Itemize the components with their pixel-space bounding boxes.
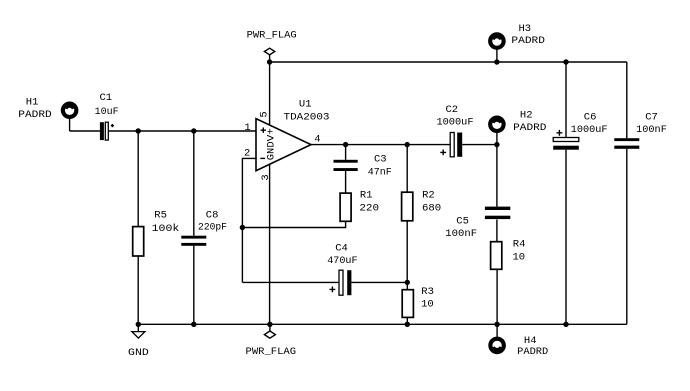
junction GND rail at C6 bbox=[563, 322, 568, 327]
wire C3 to R1 bbox=[345, 171, 347, 193]
pad H3 bbox=[490, 34, 504, 48]
svg-text:100nF: 100nF bbox=[445, 228, 477, 240]
junction GND rail at pin3/PWR_FLAG bbox=[267, 322, 272, 327]
svg-text:PADRD: PADRD bbox=[18, 109, 52, 121]
svg-text:C3: C3 bbox=[374, 154, 387, 166]
junction feedback net at R1 row bbox=[240, 225, 245, 230]
junction GND rail at R5 bbox=[136, 322, 141, 327]
junction output net at C3 bbox=[343, 142, 348, 147]
svg-text:100k: 100k bbox=[152, 223, 180, 235]
svg-text:C4: C4 bbox=[335, 243, 348, 255]
wire C5 to R4 bbox=[496, 220, 498, 242]
svg-text:V+: V+ bbox=[266, 128, 278, 141]
svg-text:PADRD: PADRD bbox=[513, 122, 546, 134]
capacitor C2 bbox=[440, 133, 462, 157]
svg-text:470uF: 470uF bbox=[327, 255, 357, 267]
junction C4/R2/R3 node bbox=[405, 280, 410, 285]
resistor R1 bbox=[340, 193, 351, 221]
wire R2 lead bottom bbox=[406, 221, 408, 283]
junction V+ rail at C6 bbox=[563, 59, 568, 64]
capacitor C7 bbox=[614, 138, 639, 149]
resistor R4 bbox=[491, 242, 502, 270]
svg-text:C5: C5 bbox=[456, 215, 469, 227]
svg-text:100nF: 100nF bbox=[636, 124, 667, 136]
wire H1 stem bbox=[69, 118, 71, 131]
svg-text:R2: R2 bbox=[422, 190, 435, 202]
resistor R5 bbox=[133, 227, 144, 256]
junction input net at C8 bbox=[191, 128, 196, 133]
junction V+ rail at PWR_FLAG bbox=[267, 59, 272, 64]
svg-text:10uF: 10uF bbox=[95, 106, 119, 118]
wire pwr flag bottom stem bbox=[269, 324, 271, 331]
wire R2 lead top bbox=[406, 145, 408, 193]
svg-text:10: 10 bbox=[512, 252, 525, 264]
wire R1 row bbox=[242, 221, 345, 227]
svg-text:PADRD: PADRD bbox=[517, 346, 548, 358]
svg-text:3: 3 bbox=[260, 174, 272, 180]
wire H4 stem bbox=[496, 324, 498, 338]
wire signal right bbox=[108, 130, 256, 132]
capacitor C5 bbox=[485, 207, 510, 219]
resistor R3 bbox=[402, 290, 413, 318]
wire R4 lead bottom bbox=[496, 269, 498, 324]
capacitor C6 bbox=[553, 130, 579, 150]
svg-text:U1: U1 bbox=[299, 98, 312, 110]
svg-text:GND: GND bbox=[266, 141, 278, 160]
junction GND rail at H4 bbox=[494, 322, 499, 327]
ground symbol bbox=[132, 332, 145, 339]
wire R5 column bottom bbox=[137, 256, 139, 324]
wire GND stem bbox=[137, 324, 139, 331]
svg-text:H2: H2 bbox=[520, 109, 533, 121]
svg-text:H1: H1 bbox=[26, 97, 39, 109]
svg-text:5: 5 bbox=[259, 111, 271, 117]
svg-text:C2: C2 bbox=[445, 104, 458, 116]
wire C5 lead top bbox=[496, 145, 498, 207]
svg-text:PWR_FLAG: PWR_FLAG bbox=[247, 29, 297, 41]
wire C8 column top bbox=[193, 131, 195, 236]
op-amp U1 TDA2003 body bbox=[256, 119, 311, 171]
svg-text:220: 220 bbox=[359, 202, 379, 214]
wire R3 lead bottom bbox=[406, 317, 408, 324]
svg-text:R5: R5 bbox=[154, 210, 167, 222]
svg-text:C1: C1 bbox=[99, 92, 112, 104]
junction output net at H2 bbox=[494, 142, 499, 147]
junction GND rail at R3 bbox=[405, 322, 410, 327]
wire H3 stem bbox=[496, 49, 498, 63]
svg-text:R1: R1 bbox=[360, 190, 373, 202]
wire bottom rail bbox=[138, 323, 627, 325]
svg-text:C6: C6 bbox=[584, 112, 597, 124]
svg-text:47nF: 47nF bbox=[368, 167, 392, 179]
capacitor C4 bbox=[330, 270, 352, 295]
wire pin5 V+ bbox=[269, 62, 271, 125]
junction V+ rail at H3 bbox=[494, 59, 499, 64]
svg-text:R3: R3 bbox=[421, 286, 434, 298]
junction input net at R5 bbox=[136, 128, 141, 133]
capacitor C1 bbox=[100, 122, 114, 140]
svg-text:C8: C8 bbox=[206, 210, 219, 222]
svg-text:C7: C7 bbox=[645, 112, 658, 124]
resistor R2 bbox=[402, 192, 413, 221]
svg-text:4: 4 bbox=[314, 133, 320, 145]
power flag top diamond bbox=[264, 48, 274, 55]
svg-text:GND: GND bbox=[128, 347, 149, 359]
pad H2 bbox=[490, 118, 504, 132]
wire pin3 GND column bbox=[269, 164, 271, 324]
wire C8 column bottom bbox=[193, 246, 195, 325]
svg-text:H3: H3 bbox=[518, 23, 531, 35]
wire signal left bbox=[70, 130, 100, 132]
wire C6 column top bbox=[565, 62, 567, 138]
wire C7 column top bbox=[626, 62, 628, 138]
capacitor C8 bbox=[181, 236, 206, 246]
wire C6 column bottom bbox=[565, 150, 567, 325]
wire pin2 path bbox=[242, 158, 256, 282]
wire output left bbox=[311, 144, 450, 146]
wire C4 row left bbox=[242, 281, 339, 283]
svg-text:220pF: 220pF bbox=[198, 222, 227, 234]
power flag bottom diamond bbox=[264, 331, 275, 338]
svg-text:1000uF: 1000uF bbox=[571, 124, 608, 136]
wire H2 stem bbox=[496, 132, 498, 145]
svg-text:PADRD: PADRD bbox=[511, 35, 545, 47]
wire top rail bbox=[270, 61, 627, 63]
pad H4 bbox=[490, 339, 504, 353]
pad H1 bbox=[63, 104, 77, 118]
svg-text:1000uF: 1000uF bbox=[436, 116, 473, 128]
wire R5 column top bbox=[137, 131, 139, 227]
svg-text:2: 2 bbox=[244, 148, 250, 160]
wire C3 lead top bbox=[345, 145, 347, 160]
wire R3 lead top bbox=[406, 282, 408, 289]
svg-text:R4: R4 bbox=[513, 238, 526, 250]
capacitor C3 bbox=[334, 160, 358, 171]
svg-text:1: 1 bbox=[244, 122, 250, 134]
wire C7 column bottom bbox=[626, 149, 628, 324]
junction GND rail at C8 bbox=[191, 322, 196, 327]
svg-text:TDA2003: TDA2003 bbox=[284, 111, 330, 123]
junction output net at R2 bbox=[405, 142, 410, 147]
wire pwr flag top stem bbox=[269, 55, 271, 62]
svg-text:PWR_FLAG: PWR_FLAG bbox=[246, 346, 297, 358]
svg-text:10: 10 bbox=[421, 299, 434, 311]
wire output right bbox=[462, 144, 497, 146]
svg-text:680: 680 bbox=[422, 202, 441, 214]
wire C4 row right bbox=[351, 281, 407, 283]
